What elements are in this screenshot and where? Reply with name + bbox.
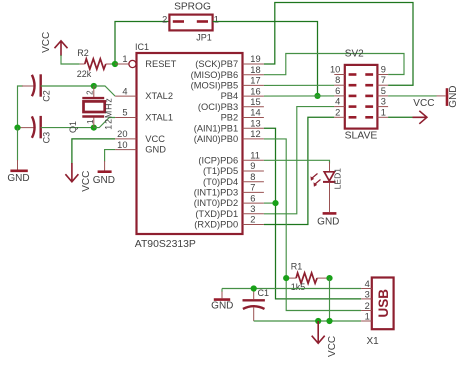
resistor R1 <box>286 262 329 292</box>
svg-text:15: 15 <box>250 97 260 107</box>
node junction SPROG/PB4/SV2.6 <box>314 93 320 99</box>
svg-text:10: 10 <box>330 65 340 75</box>
svg-text:5: 5 <box>381 86 386 96</box>
svg-text:3: 3 <box>381 97 386 107</box>
wire pin19 to SV2 pin7 <box>264 3 413 86</box>
power symbol VCC (bottom, arrow down) <box>312 321 338 357</box>
svg-text:C1: C1 <box>258 288 270 298</box>
svg-text:18: 18 <box>250 65 260 75</box>
svg-text:5: 5 <box>122 108 127 118</box>
wire R1 right down to USB pin1 net <box>329 278 331 321</box>
svg-text:1: 1 <box>365 311 370 321</box>
svg-text:SPROG: SPROG <box>174 1 211 12</box>
node junction R1 right <box>326 275 332 281</box>
svg-text:16: 16 <box>250 86 260 96</box>
svg-text:C2: C2 <box>42 90 52 102</box>
svg-text:2: 2 <box>86 90 95 95</box>
wire pin17 to SV2 pin8 <box>264 84 334 86</box>
op-amp/IC U1 AT90S2313P box <box>135 42 243 250</box>
svg-text:(MISO)PB6: (MISO)PB6 <box>191 70 239 80</box>
svg-text:22k: 22k <box>77 69 92 79</box>
pin 5 XTAL1 stub <box>115 108 173 123</box>
wire SV2 pin1 to VCC right <box>388 116 414 118</box>
wire pin16 to SV2 pin6 <box>264 95 334 97</box>
svg-text:GND: GND <box>93 175 115 186</box>
svg-text:RESET: RESET <box>145 59 176 69</box>
wire node to XTAL1 pin <box>94 118 115 128</box>
svg-text:(T0)PD4: (T0)PD4 <box>203 177 238 187</box>
svg-text:VCC: VCC <box>41 32 52 53</box>
svg-text:3: 3 <box>365 289 370 299</box>
svg-text:XTAL1: XTAL1 <box>145 113 173 123</box>
svg-text:X1: X1 <box>367 336 380 347</box>
ground GND (left of C3) <box>7 160 29 184</box>
ground GND (pin10) <box>93 161 115 186</box>
svg-text:(AIN0)PB0: (AIN0)PB0 <box>194 134 238 144</box>
svg-text:2: 2 <box>335 107 340 117</box>
node junction C3/Q1/XTAL1 <box>91 125 97 131</box>
svg-text:AT90S2313P: AT90S2313P <box>135 239 196 250</box>
svg-text:Q1: Q1 <box>68 121 78 133</box>
wire pin6 to junction <box>264 202 276 204</box>
connector X1 USB <box>361 278 393 348</box>
node junction C2/Q1/XTAL2 <box>91 83 97 89</box>
svg-text:(SCK)PB7: (SCK)PB7 <box>195 59 238 69</box>
wire GND to C1 top to USB pin4 <box>222 288 361 290</box>
svg-text:11: 11 <box>250 151 260 161</box>
svg-text:12: 12 <box>250 129 260 139</box>
svg-text:12MHz: 12MHz <box>103 97 113 129</box>
svg-text:20: 20 <box>117 129 127 139</box>
svg-text:SLAVE: SLAVE <box>345 131 378 142</box>
svg-text:1: 1 <box>214 15 219 25</box>
wire node to XTAL2 pin <box>94 86 115 96</box>
wire pin13 down to USB pin3 <box>264 128 361 299</box>
svg-text:2: 2 <box>250 215 255 225</box>
svg-text:7: 7 <box>381 75 386 85</box>
capacitor C2 <box>18 74 52 127</box>
svg-text:GND: GND <box>448 85 459 107</box>
svg-text:R2: R2 <box>77 48 89 58</box>
svg-text:10: 10 <box>117 140 127 150</box>
svg-text:19: 19 <box>250 54 260 64</box>
node junction PD2/PB1 <box>272 200 278 206</box>
svg-text:6: 6 <box>335 86 340 96</box>
svg-text:8: 8 <box>335 75 340 85</box>
wire pin12 down to USB pin2 <box>264 139 361 311</box>
svg-text:1: 1 <box>381 107 386 117</box>
wire SV2 pin4 to pin3 TXD <box>264 107 334 214</box>
svg-text:6: 6 <box>250 193 255 203</box>
wire IC1 pin20 to VCC <box>72 139 115 164</box>
wire R2 to IC1 pin1 <box>111 63 116 65</box>
svg-text:R1: R1 <box>291 262 303 272</box>
svg-text:1: 1 <box>122 54 127 64</box>
svg-text:IC1: IC1 <box>135 42 149 52</box>
node junction R1 right / USB1 <box>326 318 332 324</box>
wire C1 bottom to USB pin1 <box>254 320 361 322</box>
svg-text:VCC: VCC <box>145 134 165 144</box>
wire C2 to XTAL2 node <box>41 85 94 87</box>
svg-text:7: 7 <box>250 183 255 193</box>
svg-text:1: 1 <box>86 119 95 124</box>
svg-text:GND: GND <box>211 300 233 311</box>
pin 20 VCC stub <box>115 129 165 144</box>
svg-text:(OCI)PB3: (OCI)PB3 <box>198 102 238 112</box>
svg-text:PB4: PB4 <box>221 91 239 101</box>
svg-text:C3: C3 <box>42 132 52 144</box>
svg-text:(INT0)PD2: (INT0)PD2 <box>194 198 238 208</box>
svg-text:(ICP)PD6: (ICP)PD6 <box>198 155 238 165</box>
svg-text:3: 3 <box>250 204 255 214</box>
resistor R2 <box>77 48 111 79</box>
ground GND (right, rotated) <box>437 85 460 107</box>
ground GND (C1) <box>211 289 233 312</box>
pin 10 GND stub <box>115 140 166 155</box>
svg-text:GND: GND <box>317 217 339 228</box>
right side pins of IC1 <box>191 54 264 229</box>
wire SV2 pin2 to pin2 RXD <box>264 117 334 224</box>
svg-text:GND: GND <box>7 173 29 184</box>
power symbol VCC (below pin20, arrow down) <box>65 163 92 192</box>
node junction R2/RESET/SPROG <box>112 61 118 67</box>
svg-text:14: 14 <box>250 108 260 118</box>
svg-text:2: 2 <box>365 301 370 311</box>
svg-text:(TXD)PD1: (TXD)PD1 <box>195 209 238 219</box>
capacitor C1 <box>243 288 270 321</box>
wire pin11 to LED1 <box>264 160 330 163</box>
svg-text:GND: GND <box>145 145 166 155</box>
svg-text:13: 13 <box>250 118 260 128</box>
svg-text:2: 2 <box>162 15 167 25</box>
svg-text:17: 17 <box>250 76 260 86</box>
svg-text:(MOSI)PB5: (MOSI)PB5 <box>191 81 239 91</box>
svg-text:USB: USB <box>376 289 391 318</box>
svg-text:SV2: SV2 <box>345 48 364 59</box>
connector JP1 SPROG <box>162 1 219 42</box>
wire VCC to R2 <box>61 55 80 64</box>
ground GND (LED1) <box>317 213 339 227</box>
wire IC1 pin10 to GND <box>105 150 116 162</box>
svg-text:(T1)PD5: (T1)PD5 <box>203 166 238 176</box>
svg-text:9: 9 <box>250 161 255 171</box>
wire C2/C3 node to ground <box>17 128 19 161</box>
svg-text:(AIN1)PB1: (AIN1)PB1 <box>194 123 238 133</box>
node junction VCC drop <box>315 318 321 324</box>
svg-text:VCC: VCC <box>81 171 92 192</box>
svg-text:4: 4 <box>122 86 127 96</box>
pin 1 RESET stub and bubble <box>115 54 177 69</box>
power symbol VCC (top left, arrow up) <box>41 32 67 56</box>
svg-text:VCC: VCC <box>413 98 434 109</box>
svg-text:XTAL2: XTAL2 <box>145 91 173 101</box>
wire C3 to XTAL1 node <box>41 127 94 129</box>
svg-text:4: 4 <box>365 279 370 289</box>
LED LED1 <box>311 162 343 212</box>
node junction R1 left / PB0 net <box>283 275 289 281</box>
crystal Q1 12MHz <box>68 86 113 133</box>
svg-text:1k5: 1k5 <box>291 282 306 292</box>
capacitor C3 <box>18 116 52 143</box>
svg-text:JP1: JP1 <box>196 32 212 42</box>
svg-text:LED1: LED1 <box>333 168 343 190</box>
wire SV2 pin5 to GND right <box>388 95 436 97</box>
node junction C1 top <box>251 285 257 291</box>
svg-text:8: 8 <box>250 172 255 182</box>
svg-text:9: 9 <box>381 65 386 75</box>
power symbol VCC (right, arrow right) <box>413 98 435 124</box>
svg-text:(RXD)PD0: (RXD)PD0 <box>194 220 238 230</box>
wire pin18 to SV2 pin9 <box>264 54 404 75</box>
wire junction to SPROG <box>115 22 169 65</box>
svg-text:PB2: PB2 <box>221 113 239 123</box>
svg-text:(INT1)PD3: (INT1)PD3 <box>194 188 238 198</box>
connector SV2 SLAVE <box>330 48 388 141</box>
node junction C2/C3/GND <box>14 125 20 131</box>
pin 4 XTAL2 stub <box>115 86 173 101</box>
wire SPROG pin1 to SV2 pin6 net <box>213 22 318 96</box>
svg-text:4: 4 <box>335 97 340 107</box>
svg-text:VCC: VCC <box>327 336 338 357</box>
